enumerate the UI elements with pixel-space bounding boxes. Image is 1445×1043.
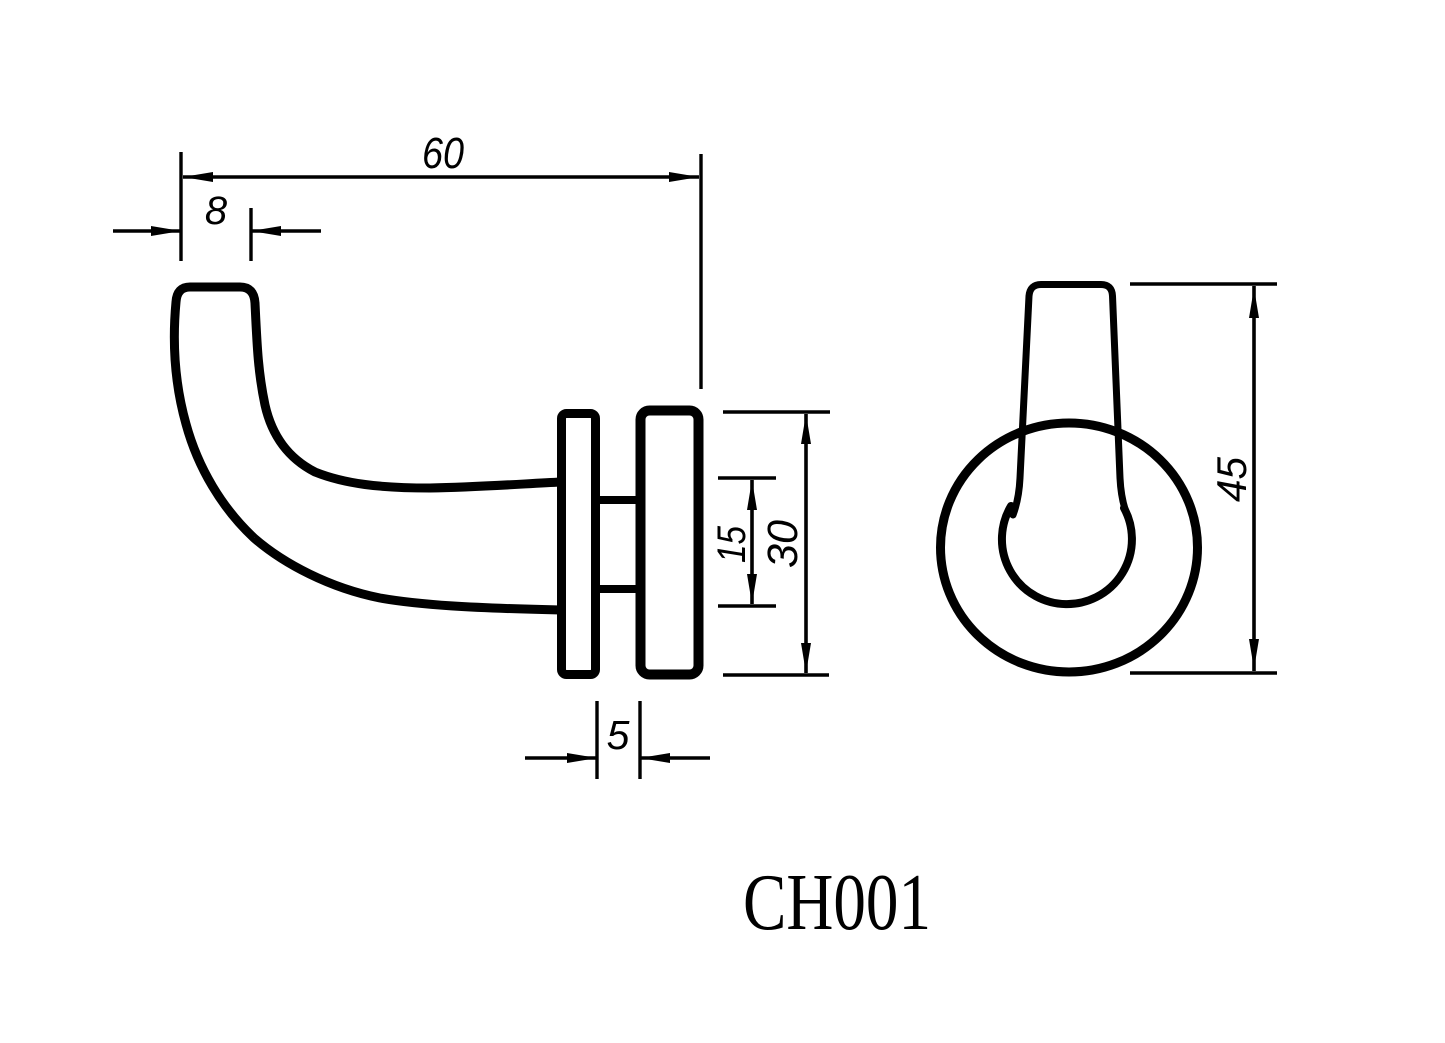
- svg-text:60: 60: [422, 129, 464, 178]
- dim 30 line: [804, 414, 808, 673]
- dim 5 extension left: [595, 701, 598, 779]
- dim 8 line right: [251, 229, 321, 233]
- plate P2 (side view, wide plate): [641, 411, 699, 675]
- dim 15 extension top: [718, 476, 776, 479]
- dim 60 extension right: [699, 154, 702, 389]
- dim 8 arrow left: [151, 226, 181, 236]
- dim 15 arrow up: [747, 480, 757, 510]
- dim 60 arrow right: [669, 172, 699, 182]
- svg-text:CH001: CH001: [743, 859, 931, 947]
- dim 15 line: [750, 480, 754, 604]
- dim 15 arrow down: [747, 574, 757, 604]
- connector bar top: [597, 496, 639, 504]
- svg-text:15: 15: [710, 525, 754, 563]
- hook side view outline: [174, 287, 561, 610]
- dim 30 arrow down: [801, 643, 811, 673]
- dim 5 arrow left: [567, 753, 597, 763]
- front view outer circle: [941, 423, 1198, 672]
- dim 45 arrow up: [1249, 288, 1259, 318]
- connector bar bottom: [597, 585, 639, 593]
- svg-text:45: 45: [1208, 456, 1255, 502]
- front view inner opening arc: [1002, 506, 1132, 604]
- dim 30 extension bottom: [723, 673, 829, 676]
- dim 60 line: [183, 175, 699, 179]
- dim 30 arrow up: [801, 414, 811, 444]
- dim 45 arrow down: [1249, 639, 1259, 669]
- dim 5 arrow right: [640, 753, 670, 763]
- svg-text:5: 5: [607, 712, 630, 758]
- dim 60 arrow left: [183, 172, 213, 182]
- plate P1 (side view, thin plate): [562, 414, 596, 675]
- dim 5 line right: [640, 756, 710, 760]
- dim 45 extension top: [1130, 282, 1277, 285]
- dim 8 arrow right: [251, 226, 281, 236]
- dim 45 extension bottom: [1130, 671, 1277, 674]
- dim 30 extension top: [723, 410, 830, 413]
- svg-text:8: 8: [205, 189, 228, 233]
- dim 15 extension bottom: [718, 604, 776, 607]
- dim 5 extension right: [638, 701, 641, 779]
- svg-text:30: 30: [759, 520, 807, 568]
- front view hook column: [1013, 285, 1127, 516]
- dim 5 line left: [525, 756, 597, 760]
- dim 45 line: [1252, 286, 1256, 671]
- dim 8 extension right: [249, 208, 252, 261]
- dim 60 extension left: [179, 152, 182, 261]
- dim 8 line left: [113, 229, 181, 233]
